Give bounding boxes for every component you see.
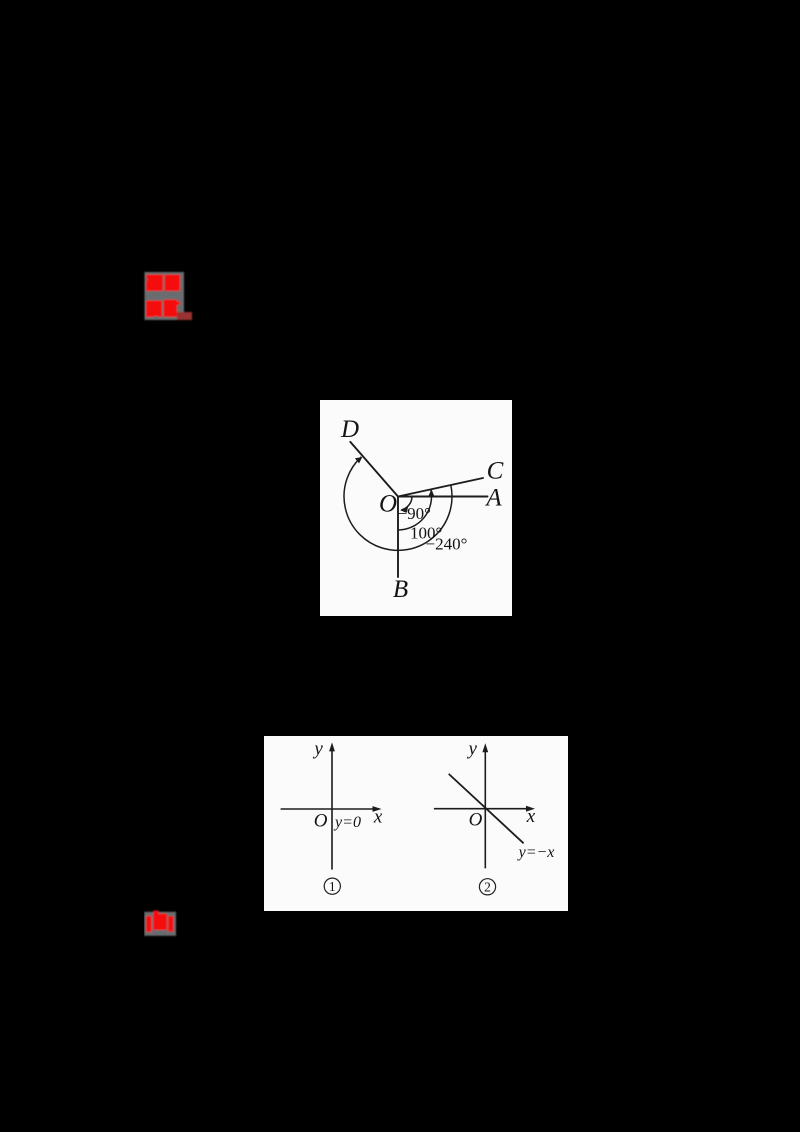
arrowhead of 100 arc (points up): [428, 489, 434, 496]
svg-text:y: y: [466, 739, 477, 760]
ray OD: [350, 442, 398, 497]
arrowhead diagram 1 y-axis: [329, 742, 335, 751]
svg-text:O: O: [314, 811, 328, 832]
diagram 2 x-axis: [434, 808, 529, 810]
svg-text:A: A: [484, 485, 502, 512]
svg-text:C: C: [487, 458, 504, 485]
diagram 2 line y=-x: [449, 774, 524, 843]
svg-text:x: x: [373, 807, 383, 828]
svg-text:B: B: [393, 576, 408, 603]
arrowhead diagram 1 x-axis: [373, 806, 382, 812]
arrowhead of -240 arc (points up-right): [355, 457, 362, 463]
arrowhead of -90 arc (points left): [400, 507, 408, 513]
red stamp 1 (two rows of red characters on gray block): [142, 270, 194, 322]
diagram 1 y-axis: [331, 749, 333, 870]
svg-text:O: O: [379, 491, 397, 518]
arc -90 deg: [401, 497, 412, 510]
circled number 2: [479, 879, 495, 895]
white panel 2: two coordinate systems: [264, 736, 568, 911]
svg-text:y=0: y=0: [333, 814, 361, 831]
arc -240 deg: [344, 457, 452, 551]
svg-text:O: O: [469, 810, 483, 831]
svg-text:1: 1: [329, 879, 336, 894]
svg-text:−240°: −240°: [426, 535, 468, 554]
white panel 1: angle diagram: [320, 400, 512, 616]
ray OA: [398, 496, 488, 498]
ray OC: [398, 478, 483, 497]
svg-text:−90°: −90°: [398, 504, 431, 523]
svg-text:y: y: [312, 739, 323, 760]
svg-text:D: D: [340, 416, 359, 443]
diagram 2 y-axis: [484, 750, 486, 868]
svg-text:2: 2: [484, 880, 491, 895]
svg-text:y=−x: y=−x: [517, 844, 555, 861]
svg-text:x: x: [526, 806, 536, 827]
arc 100 deg: [398, 490, 432, 530]
ray OB: [397, 497, 399, 578]
circled number 1: [324, 878, 340, 894]
arrowhead diagram 2 y-axis: [482, 743, 488, 752]
red stamp 2 (bracketed red character on gray block): [144, 909, 178, 939]
diagram 1 x-axis: [281, 808, 375, 810]
arrowhead diagram 2 x-axis: [526, 806, 535, 812]
